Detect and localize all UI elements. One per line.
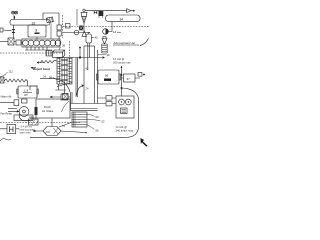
zigzag heat line [40, 61, 57, 64]
zigzag heater element [4, 79, 28, 82]
svg-text:1.9: 1.9 [24, 89, 29, 93]
wire squiggle [0, 139, 11, 141]
wire [0, 102, 14, 104]
wire [58, 36, 60, 39]
radiator heat exchanger hatched [57, 58, 72, 87]
svg-text:Fan Relay: Fan Relay [1, 113, 13, 116]
wire [50, 24, 52, 40]
small pump circle [74, 30, 79, 35]
box 3 (ECU) [28, 25, 46, 37]
flask accumulator [102, 37, 107, 54]
AC hexagon [43, 127, 61, 136]
air duct verticals [76, 46, 98, 104]
svg-text:Fresh: Fresh [44, 105, 51, 109]
gauge circles G1 [12, 11, 18, 14]
dashed line right [63, 26, 150, 28]
blower fan [19, 107, 30, 121]
dashed floor line [0, 122, 80, 124]
svg-text:34: 34 [43, 75, 46, 79]
filter box F1 [57, 25, 61, 30]
dark X box [79, 26, 83, 31]
exhaust manifold [25, 47, 52, 50]
label 14 volt 200 amps [113, 57, 131, 65]
power outlet box [116, 96, 134, 118]
dashed boundary left [0, 52, 63, 54]
svg-text:112: 112 [9, 70, 14, 74]
svg-text:30: 30 [107, 53, 111, 57]
battery tank 96 [97, 70, 121, 84]
hatched valve V4 [46, 51, 52, 57]
svg-text:14: 14 [113, 30, 117, 34]
cyclone separator [81, 9, 87, 33]
expansion tank [86, 33, 98, 44]
plenum box [71, 92, 98, 110]
pump box below radiator [61, 94, 68, 100]
arrow left small [37, 62, 43, 64]
svg-text:Atmospheric Air: Atmospheric Air [113, 41, 137, 45]
cross line with arrow [72, 56, 105, 58]
wire L corner [30, 86, 38, 90]
wire [58, 13, 60, 25]
label 30 [98, 53, 111, 57]
dashed vertical mid [69, 41, 71, 62]
svg-text:34: 34 [120, 18, 124, 22]
accessory line [63, 32, 90, 34]
wire [30, 117, 36, 119]
svg-text:200 amps max: 200 amps max [113, 61, 131, 65]
svg-text:warm max: warm max [20, 132, 32, 135]
check valve V3 [12, 29, 16, 33]
bus vertical [121, 66, 123, 96]
coupler box [16, 40, 21, 45]
throttle valve V2 [46, 17, 53, 23]
label Reject Heat [31, 67, 50, 71]
svg-text:14 volt @: 14 volt @ [116, 125, 128, 129]
arrow out left [50, 96, 61, 98]
engine block [22, 39, 61, 47]
valve V1 [14, 15, 16, 19]
wire [3, 29, 12, 32]
enclosure boundary [30, 88, 139, 137]
filter box F2 [57, 31, 61, 36]
tank pipes [88, 43, 90, 70]
svg-text:140 amps max: 140 amps max [116, 128, 134, 132]
svg-text:32: 32 [32, 21, 36, 25]
wire [76, 9, 78, 26]
airflow arc [62, 101, 70, 112]
svg-text:96: 96 [105, 74, 109, 78]
fan housing box [14, 115, 33, 121]
label 14 volt 140 amps [116, 125, 134, 133]
svg-text:47: 47 [127, 77, 131, 81]
annotation text block [20, 126, 35, 135]
heater X-box left [0, 77, 4, 83]
wire 34 label [40, 75, 70, 92]
fuel tank 1.9 gal [17, 86, 38, 98]
wire [13, 33, 15, 38]
connector [82, 31, 87, 36]
fuel line down from bar [13, 25, 15, 29]
heater core H box [7, 125, 16, 134]
small box left [14, 100, 19, 106]
wire [68, 96, 71, 98]
box 47 [124, 74, 136, 82]
wire [14, 42, 22, 43]
intake manifold bar 32 [10, 20, 50, 26]
radiator outlet pipes [56, 84, 67, 94]
svg-text:14 volt @: 14 volt @ [113, 57, 125, 61]
pump with dark blob [103, 22, 112, 35]
wire box3 to engine [36, 37, 38, 39]
label 14 [113, 30, 121, 34]
hexagon wires [33, 118, 87, 133]
wire [14, 17, 16, 20]
junction box J1 [66, 24, 71, 29]
svg-text:36: 36 [62, 44, 66, 48]
label Atmospheric Air [113, 39, 149, 46]
motor dark [99, 11, 104, 18]
dashed boundary top [62, 15, 64, 38]
svg-text:AC: AC [46, 130, 51, 134]
damper arc [77, 85, 89, 96]
3D box 36 [53, 44, 66, 58]
blower feed arrows [8, 108, 19, 112]
wire [43, 13, 59, 20]
svg-text:gal: gal [24, 93, 28, 97]
wires H box [0, 128, 19, 130]
svg-text:Warm Air: Warm Air [1, 95, 12, 99]
wire [0, 41, 8, 43]
left port [0, 28, 3, 32]
intake X box [63, 94, 69, 100]
muffler bar 34 [106, 15, 141, 22]
svg-text:40: 40 [95, 36, 99, 40]
cursor arrow [140, 138, 147, 147]
fuel pump X-box [8, 38, 14, 45]
wire to tank [27, 81, 29, 86]
top line with triangle [85, 9, 135, 13]
relay contacts [98, 96, 117, 106]
fresh air intake box [35, 99, 71, 118]
label 112 curve [0, 70, 13, 78]
bowtie valve top [94, 11, 97, 15]
small coupling under tank [22, 99, 28, 103]
wire to stud [122, 73, 145, 79]
label 58 leader [49, 76, 57, 81]
hatched box 120 [29, 116, 39, 125]
grille leaders 50 52 56 [87, 115, 105, 133]
heater grille [72, 112, 87, 127]
svg-text:Air Intake: Air Intake [42, 109, 54, 113]
